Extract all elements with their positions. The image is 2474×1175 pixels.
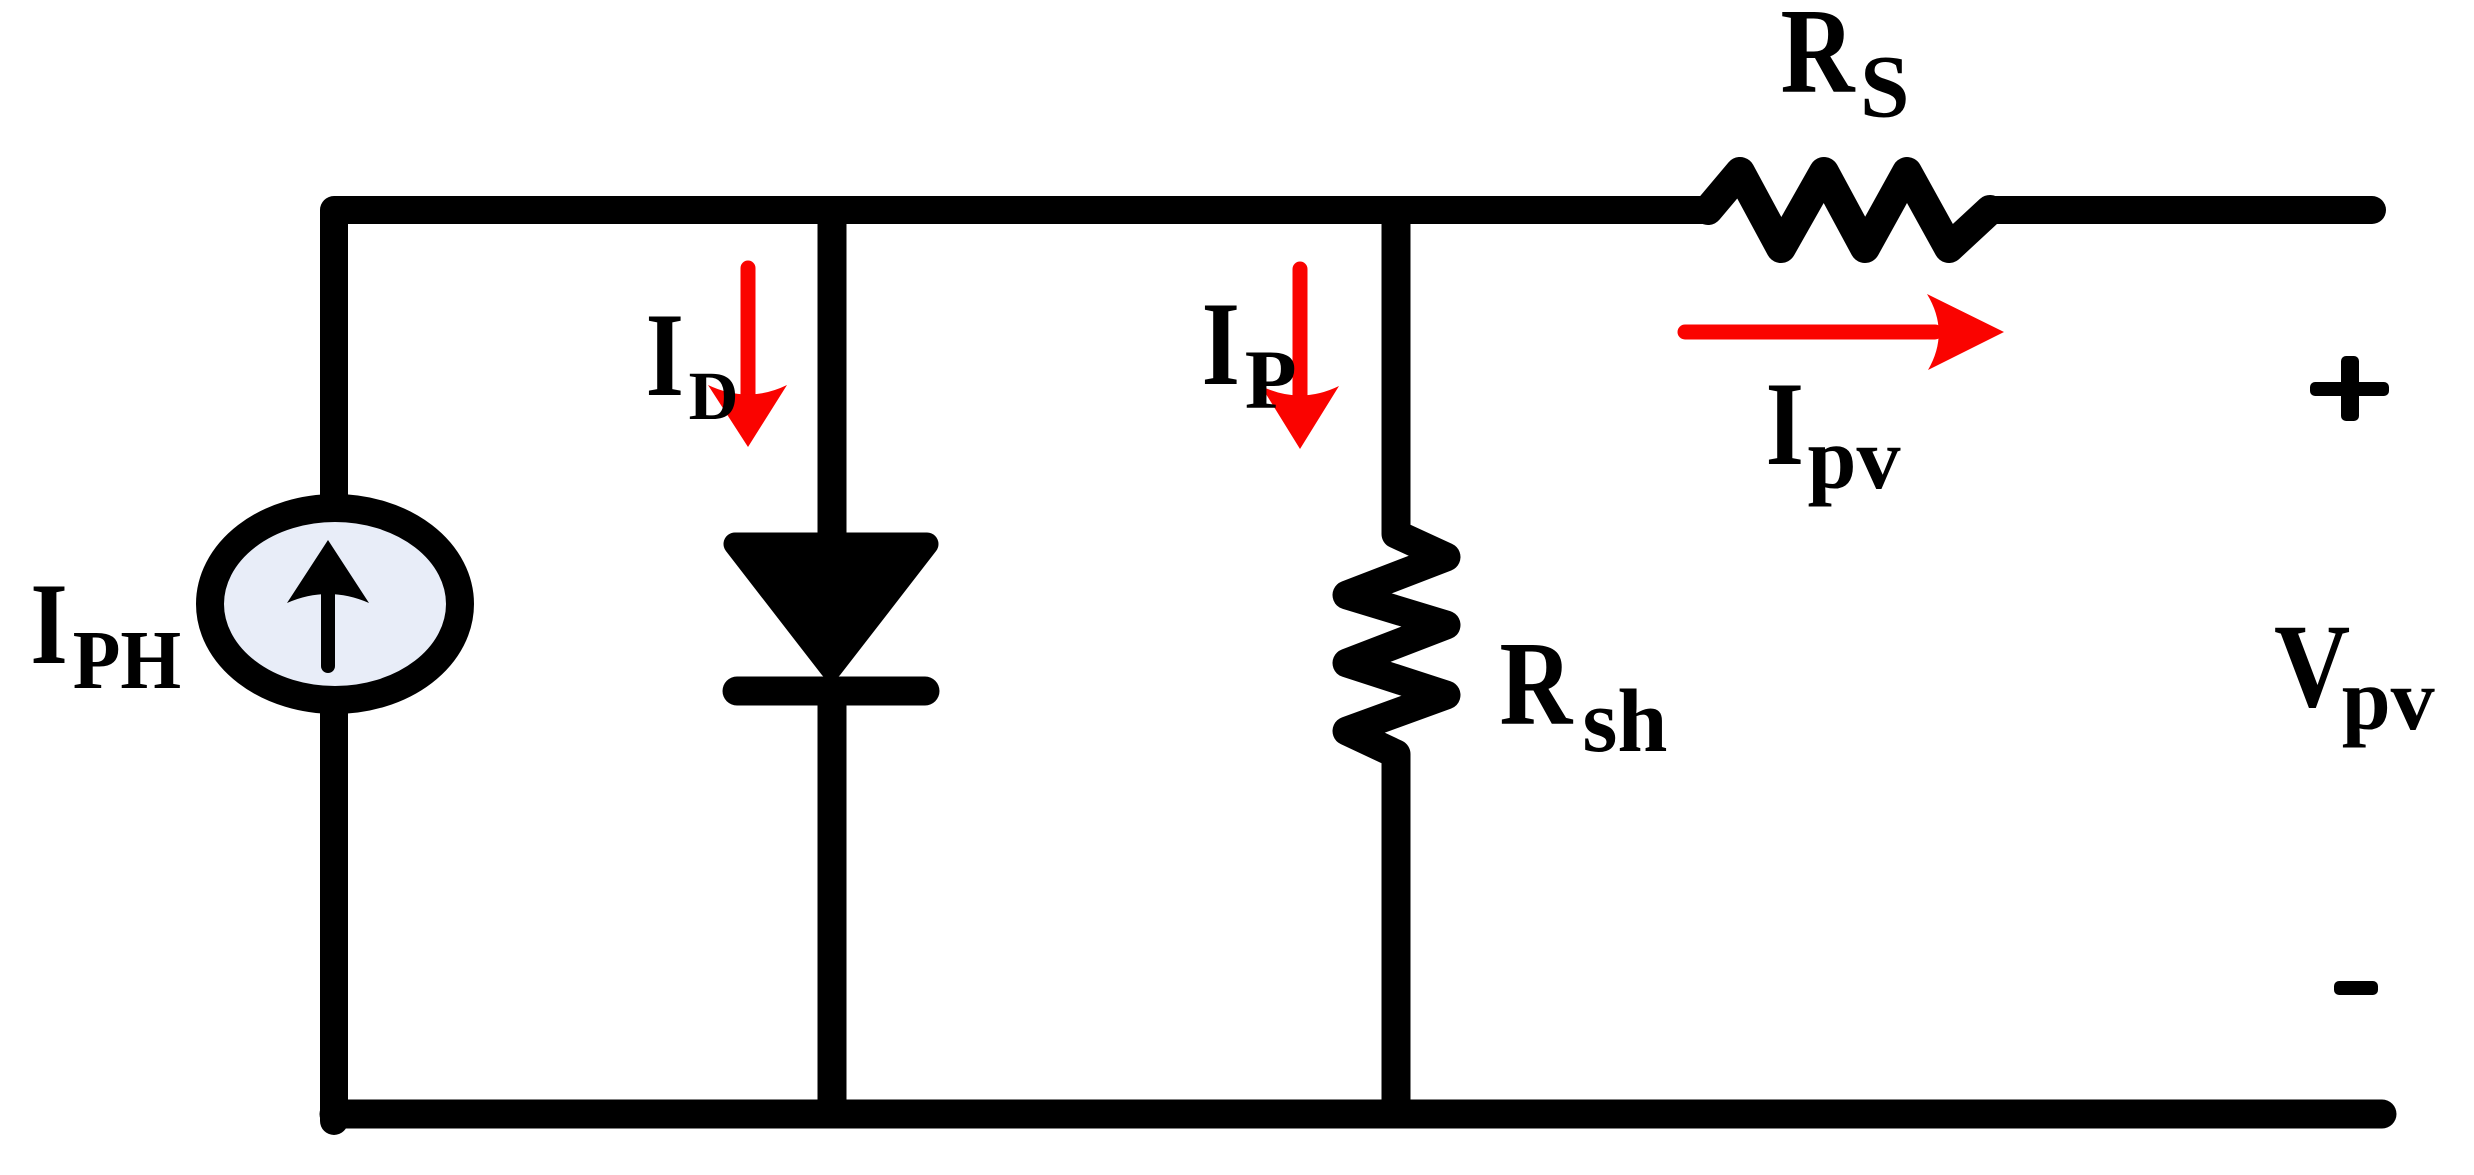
red arrow I_D (down) <box>741 268 756 395</box>
svg-text:I: I <box>30 560 67 689</box>
red arrow I_pv (right) <box>1685 325 1935 340</box>
wire: bottom rail <box>334 1100 2382 1129</box>
current source I_PH ellipse <box>210 508 460 700</box>
minus terminal <box>2334 981 2378 995</box>
svg-text:I: I <box>1766 357 1804 490</box>
svg-text:R: R <box>1781 0 1856 119</box>
svg-text:S: S <box>1860 39 1910 137</box>
svg-text:R: R <box>1500 617 1574 750</box>
svg-text:PH: PH <box>73 613 181 706</box>
wire: diode branch top <box>818 210 847 548</box>
resistor R_S zigzag body <box>1708 172 1990 248</box>
current source arrow (up) <box>321 592 335 666</box>
svg-text:pv: pv <box>1808 411 1901 508</box>
red arrow I_P (down) <box>1293 269 1308 397</box>
wire: left vertical + top rail left of R_S <box>334 210 1708 498</box>
diode D triangle <box>735 544 927 668</box>
svg-text:I: I <box>1202 277 1240 410</box>
svg-text:I: I <box>646 288 684 421</box>
diode cathode bar <box>737 677 925 706</box>
wire: diode branch bottom <box>818 700 847 1114</box>
wire + resistor R_sh zigzag branch <box>1347 210 1446 1114</box>
plus terminal <box>2310 382 2389 396</box>
svg-text:pv: pv <box>2342 652 2435 749</box>
svg-text:P: P <box>1245 333 1297 427</box>
svg-text:D: D <box>689 358 739 434</box>
wire: left vertical below source <box>320 710 348 1121</box>
svg-text:V: V <box>2274 600 2350 733</box>
svg-text:sh: sh <box>1582 672 1667 771</box>
wire: top rail right of R_S <box>1990 196 2372 224</box>
